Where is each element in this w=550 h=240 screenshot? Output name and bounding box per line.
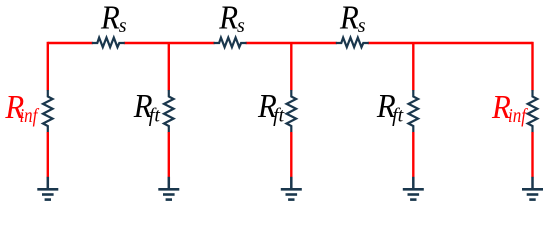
ground (branch 3) xyxy=(281,177,302,200)
resistor R_inf (right branch) xyxy=(528,90,538,133)
svg-text:s: s xyxy=(358,15,366,37)
wire: top bus segment between R_s2 and node C xyxy=(246,42,337,44)
svg-text:R: R xyxy=(100,0,120,36)
resistor R_s (second series) xyxy=(214,38,247,48)
wire: top bus segment between R_s3 and node E xyxy=(368,42,533,44)
resistor R_ft (branch 2) xyxy=(164,90,174,133)
wire: branch 1 lower segment xyxy=(47,132,49,177)
resistor R_inf (left branch) xyxy=(43,90,53,133)
wire: branch 2 lower segment xyxy=(168,132,170,177)
ground (branch 2) xyxy=(158,177,179,200)
wire: branch 3 lower segment xyxy=(290,132,292,177)
wire: branch 5 lower segment xyxy=(531,132,533,177)
wire: top bus segment between node A and R_s1 xyxy=(48,42,93,44)
svg-text:ft: ft xyxy=(273,104,285,126)
resistor R_s (first series) xyxy=(92,38,125,48)
svg-text:s: s xyxy=(237,15,245,37)
ground (branch 4) xyxy=(403,177,424,200)
wire: branch 4 upper segment xyxy=(412,43,414,91)
resistor R_ft (branch 4) xyxy=(409,90,419,133)
ground (branch 1) xyxy=(37,177,58,200)
resistor R_s (third series) xyxy=(336,38,369,48)
wire: branch 1 upper segment xyxy=(47,42,49,91)
wire: top bus segment between R_s1 and node B xyxy=(124,42,215,44)
wire: branch 5 upper segment xyxy=(531,42,533,91)
resistor R_ft (branch 3) xyxy=(287,90,297,133)
svg-text:s: s xyxy=(119,15,127,37)
svg-text:ft: ft xyxy=(149,104,161,126)
svg-text:ft: ft xyxy=(392,104,404,126)
svg-text:R: R xyxy=(218,0,238,36)
svg-text:inf: inf xyxy=(20,105,40,127)
svg-text:inf: inf xyxy=(508,105,528,127)
wire: branch 3 upper segment xyxy=(290,43,292,91)
wire: branch 4 lower segment xyxy=(412,132,414,177)
wire: branch 2 upper segment xyxy=(168,43,170,91)
svg-text:R: R xyxy=(339,0,359,36)
ground (branch 5) xyxy=(522,177,543,200)
